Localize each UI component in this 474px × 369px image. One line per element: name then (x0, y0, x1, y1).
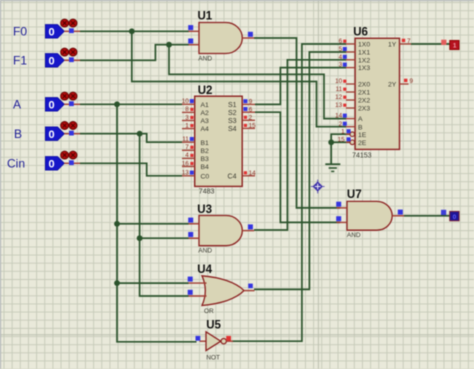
svg-text:B2: B2 (201, 148, 210, 155)
wire U2 S1 to U6 pin 1X3 (255, 68, 346, 105)
svg-text:8: 8 (185, 106, 189, 113)
input terminal F0 (LOGICSTATE) (13, 19, 80, 38)
svg-text:2X1: 2X1 (358, 90, 370, 97)
svg-text:U7: U7 (347, 189, 362, 201)
svg-text:F0: F0 (13, 25, 27, 39)
svg-text:10: 10 (182, 98, 190, 105)
svg-text:7: 7 (185, 144, 189, 151)
junction F0/U1 (129, 28, 135, 34)
svg-text:10: 10 (335, 78, 343, 85)
svg-text:15: 15 (249, 123, 257, 130)
input terminal A (LOGICSTATE) (13, 92, 80, 111)
svg-text:15: 15 (338, 136, 346, 143)
svg-text:4: 4 (339, 54, 343, 61)
svg-text:AND: AND (198, 56, 212, 63)
svg-text:Cin: Cin (7, 157, 25, 171)
wire A to U2 pin A1 (80, 103, 182, 105)
wire A vertical branch to U3/U4/U5 (117, 104, 197, 341)
wire U4 output to U6 pin 1X1 (254, 52, 346, 289)
NOT gate U5 (196, 320, 234, 362)
wire U2 S2 to U7 input B (255, 112, 340, 222)
svg-text:OR: OR (204, 308, 214, 315)
svg-text:A3: A3 (201, 118, 210, 125)
svg-text:A: A (358, 116, 363, 123)
svg-text:U1: U1 (198, 11, 213, 23)
wire F0 to U1 input A (80, 30, 189, 32)
svg-text:S1: S1 (228, 102, 237, 109)
multiplexer U6 (74153) (335, 27, 413, 160)
logic probe output 1Y (state 1) (441, 40, 459, 50)
svg-text:1Y: 1Y (388, 42, 397, 49)
svg-text:5: 5 (339, 46, 343, 53)
svg-text:A2: A2 (201, 110, 210, 117)
svg-text:1X1: 1X1 (358, 50, 370, 57)
svg-text:B1: B1 (201, 140, 210, 147)
svg-text:13: 13 (182, 170, 190, 177)
svg-text:U6: U6 (353, 27, 368, 39)
ground (325, 164, 340, 171)
svg-text:3: 3 (339, 62, 343, 69)
svg-text:B: B (14, 127, 22, 141)
AND gate U3 (188, 204, 254, 255)
svg-text:A: A (13, 98, 21, 112)
svg-text:1X3: 1X3 (358, 65, 370, 72)
wire U3 output to U6 pin 1X2 (254, 60, 346, 230)
svg-text:U3: U3 (197, 204, 212, 216)
svg-text:C4: C4 (228, 173, 237, 180)
svg-text:1: 1 (185, 122, 189, 129)
svg-text:2E: 2E (358, 140, 367, 147)
svg-text:C0: C0 (201, 173, 210, 180)
svg-text:1X0: 1X0 (358, 42, 370, 49)
node marker (origin) (311, 180, 325, 194)
svg-text:1E: 1E (358, 132, 367, 139)
AND gate U7 (336, 189, 404, 239)
svg-text:0: 0 (48, 159, 54, 171)
svg-text:NOT: NOT (206, 355, 220, 362)
svg-text:AND: AND (198, 248, 212, 255)
4-bit adder U2 (7483) (182, 85, 256, 196)
svg-text:14: 14 (249, 170, 257, 177)
junction B/U2 (137, 131, 143, 137)
svg-text:4: 4 (185, 152, 189, 159)
svg-text:11: 11 (182, 136, 189, 143)
wire A branch to U4 input A (117, 282, 189, 284)
wire B vertical branch to U3/U4 (140, 134, 189, 296)
svg-text:B: B (358, 124, 363, 131)
svg-text:U4: U4 (197, 264, 212, 276)
svg-text:13: 13 (335, 102, 343, 109)
svg-text:F1: F1 (13, 54, 27, 68)
wire F1 to U1 input B (80, 45, 189, 61)
input terminal Cin (LOGICSTATE) (7, 151, 80, 170)
svg-text:6: 6 (249, 106, 253, 113)
wire U7 output to logic probe (404, 215, 450, 217)
wire U6 1Y to logic probe (411, 43, 450, 45)
svg-text:0: 0 (48, 27, 54, 39)
svg-text:B3: B3 (201, 156, 210, 163)
svg-text:A4: A4 (201, 126, 210, 133)
svg-text:AND: AND (347, 232, 361, 239)
svg-text:2: 2 (249, 115, 253, 122)
svg-text:2Y: 2Y (388, 82, 397, 89)
svg-text:U5: U5 (206, 320, 221, 332)
wire U1 output to U7 input A (254, 38, 340, 208)
svg-text:1: 1 (453, 43, 457, 50)
wire A branch to U3 input A (117, 223, 189, 225)
wire B to U2 pin B1 (80, 134, 182, 143)
svg-text:9: 9 (410, 78, 414, 85)
input terminal B (LOGICSTATE) (14, 122, 80, 141)
svg-text:7483: 7483 (199, 189, 215, 196)
svg-text:U2: U2 (198, 85, 213, 97)
svg-text:7: 7 (407, 38, 411, 45)
junction A/U3 (114, 221, 120, 227)
logic probe output U7 (state 0) (441, 210, 459, 221)
svg-text:9: 9 (249, 99, 253, 106)
wire Cin to U2 pin C0 (80, 163, 182, 176)
svg-text:74153: 74153 (352, 153, 372, 160)
svg-text:1: 1 (341, 128, 345, 135)
svg-text:0: 0 (48, 129, 54, 141)
svg-text:2X2: 2X2 (358, 98, 370, 105)
svg-text:2X0: 2X0 (358, 82, 370, 89)
wire B branch to U3 input B (140, 237, 189, 239)
svg-text:S4: S4 (228, 126, 237, 133)
wire F0 branch to U6 pin B (2) (132, 31, 346, 126)
wire F1 branch to U6 pin A (14) (169, 45, 346, 119)
svg-text:12: 12 (335, 94, 343, 101)
svg-text:2: 2 (339, 121, 343, 128)
OR gate U4 (188, 264, 255, 315)
svg-text:11: 11 (336, 86, 343, 93)
junction 1E/2E ground (328, 139, 334, 145)
input terminal F1 (LOGICSTATE) (13, 48, 80, 67)
svg-text:A1: A1 (201, 102, 210, 109)
svg-text:2X3: 2X3 (358, 106, 370, 113)
svg-text:S2: S2 (228, 110, 237, 117)
wire U5 output to U6 pin 1X0 (232, 44, 346, 341)
svg-text:B4: B4 (201, 164, 210, 171)
wire U6 1E/2E to ground (331, 134, 349, 163)
AND gate U1 (188, 11, 254, 63)
svg-text:16: 16 (182, 160, 190, 167)
junction A/U4 (114, 280, 120, 286)
svg-text:0: 0 (48, 100, 54, 112)
svg-text:0: 0 (48, 56, 54, 68)
svg-text:14: 14 (335, 113, 343, 120)
svg-text:1X2: 1X2 (358, 57, 370, 64)
svg-text:6: 6 (339, 38, 343, 45)
svg-text:3: 3 (185, 114, 189, 121)
junction F1/U1 (166, 42, 172, 48)
svg-text:0: 0 (453, 214, 457, 221)
junction B/U3 (137, 235, 143, 241)
svg-text:S3: S3 (228, 118, 237, 125)
junction A/U2 (114, 101, 120, 107)
